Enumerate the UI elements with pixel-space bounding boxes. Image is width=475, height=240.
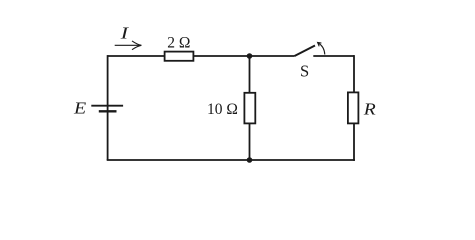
resistor R box [348, 92, 359, 123]
wire bottom horizontal [107, 159, 355, 161]
battery E long plate [91, 105, 123, 107]
switch arc arrowhead [318, 43, 322, 47]
node junction dot bottom [247, 157, 253, 163]
wire middle vertical upper [249, 56, 251, 93]
svg-text:I: I [119, 24, 130, 43]
resistor 2ohm box [165, 52, 194, 61]
wire right vertical lower [353, 124, 355, 161]
current arrow line [115, 44, 141, 46]
current arrowhead [132, 41, 141, 50]
wire middle vertical lower [249, 124, 251, 161]
battery E short plate [99, 110, 117, 112]
svg-text:S: S [300, 62, 309, 81]
svg-text:2 Ω: 2 Ω [167, 34, 190, 51]
switch arc arrow [318, 43, 325, 55]
svg-text:R: R [363, 100, 376, 119]
resistor 10ohm box [244, 93, 255, 124]
wire top-right horizontal [313, 55, 354, 57]
switch S blade [295, 46, 316, 57]
node junction dot top [247, 53, 253, 59]
svg-text:10 Ω: 10 Ω [207, 101, 238, 118]
wire left vertical [107, 55, 109, 160]
wire top-left horizontal [108, 55, 165, 57]
svg-text:E: E [73, 98, 86, 117]
wire top-middle horizontal [194, 55, 295, 57]
wire right vertical upper [353, 55, 355, 92]
